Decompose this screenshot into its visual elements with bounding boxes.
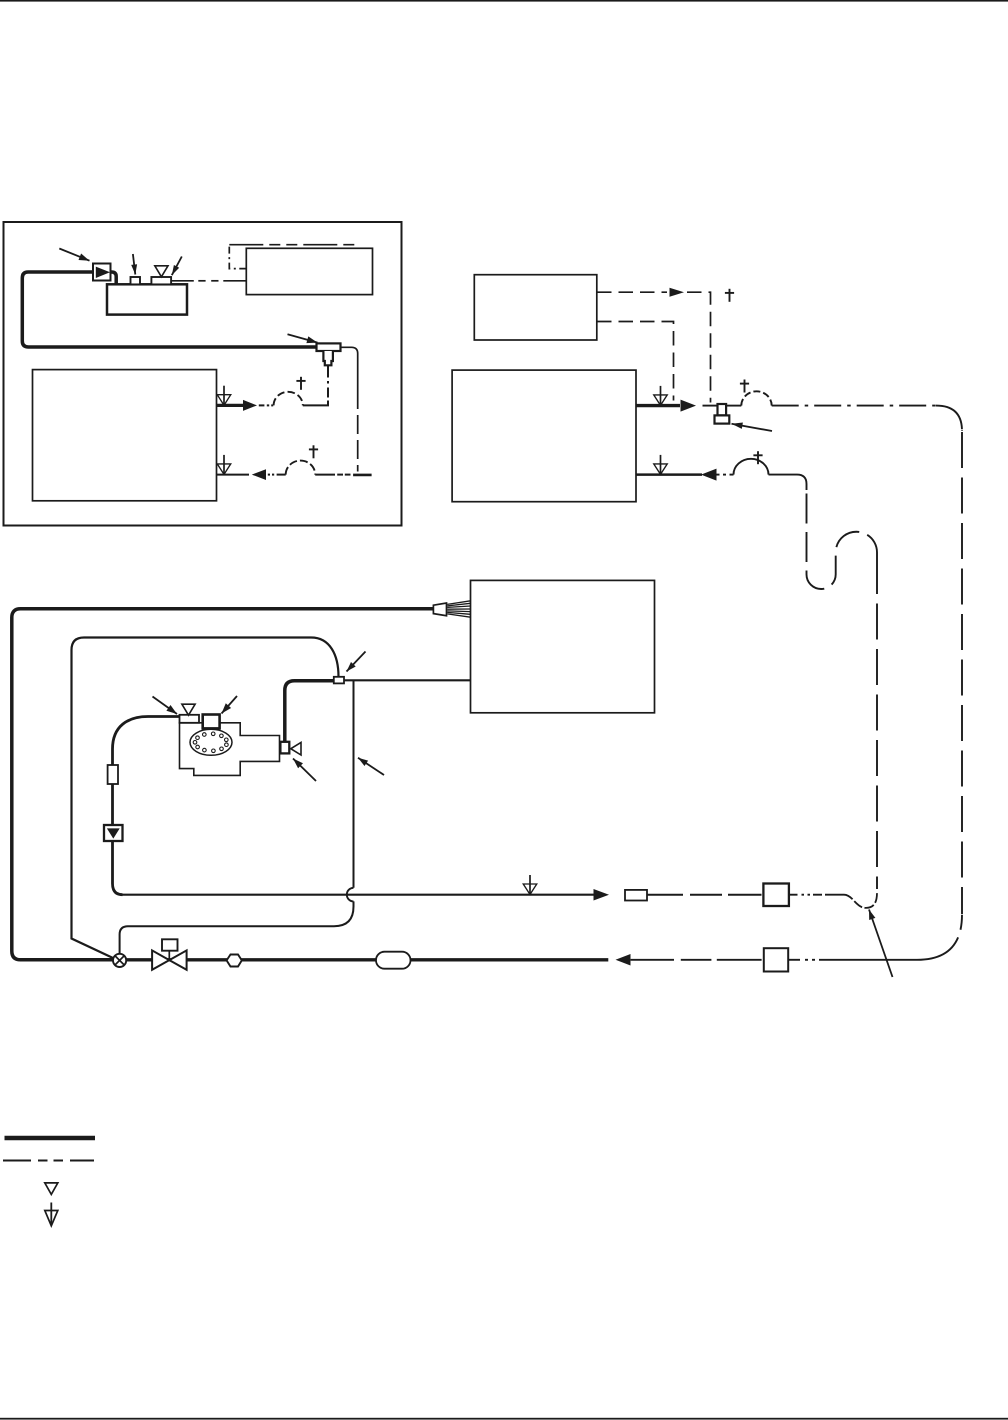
branch pipe wire down xyxy=(353,681,355,888)
dagger note mark xyxy=(300,377,302,390)
pump body xyxy=(180,723,280,776)
return corner curve wire xyxy=(917,915,962,960)
B2 supply port anchor symbol xyxy=(654,395,668,406)
feed union box xyxy=(763,884,789,907)
pump outlet fitting xyxy=(280,742,289,754)
inset actuator unit box xyxy=(33,370,217,501)
union hexagon xyxy=(227,955,242,967)
return flow arrow xyxy=(616,954,631,966)
return chain wire right xyxy=(788,959,800,961)
inset one-way valve square xyxy=(93,264,111,281)
leader arrow to one-way valve xyxy=(59,249,89,261)
return chain wire into s-bend xyxy=(769,475,807,490)
main thick pipe loop wire xyxy=(12,609,434,960)
feed line wire to right xyxy=(122,894,594,896)
inset thick suction pipe wire xyxy=(22,272,316,347)
return hop-over arc xyxy=(734,459,769,475)
inset harness chain wire above control unit xyxy=(229,245,246,269)
pump discharge pipe wire xyxy=(285,681,334,742)
banjo connector xyxy=(703,405,718,407)
return dashes wire xyxy=(681,959,712,961)
B1 dashed signal wire 2 xyxy=(597,322,674,401)
dagger note mark xyxy=(313,445,315,458)
feed port anchor symbol xyxy=(523,884,537,895)
check valve xyxy=(104,825,123,841)
legend thick line sample xyxy=(5,1136,96,1140)
leader arrow to branch pipe xyxy=(358,758,384,775)
pump inlet flange xyxy=(180,715,200,723)
ECU box xyxy=(471,580,655,712)
dagger note mark xyxy=(757,451,759,464)
inset sensor dashed lead wire xyxy=(171,280,194,282)
feed-to-drop junction curve wire xyxy=(844,893,877,908)
inset return flow arrow xyxy=(217,474,250,476)
feed hose fitting xyxy=(625,890,647,901)
leader arrow to pump inlet xyxy=(153,697,178,715)
pipe junction to ECU wire xyxy=(344,679,471,681)
branch pipe corner wire xyxy=(120,901,354,953)
feed chain wire to drop xyxy=(790,894,798,896)
inset return chain wire right xyxy=(315,474,335,476)
B1 dashed signal wire 1 drop xyxy=(687,292,711,402)
return chain wire xyxy=(717,474,720,476)
second loop wire xyxy=(72,638,339,959)
inline filter xyxy=(108,765,118,784)
inset tee right branch wire xyxy=(341,347,358,390)
signal arrow xyxy=(670,288,685,297)
inset tee stem chain wire xyxy=(327,365,329,377)
leader arrow to connector block xyxy=(222,696,238,714)
leader arrow to cap xyxy=(133,254,135,275)
bleed valve circle-x xyxy=(113,954,126,967)
inset supply corner wire xyxy=(303,404,329,406)
branch hop-over arc xyxy=(347,888,354,902)
B2 return flow arrow xyxy=(636,473,702,476)
pump outlet triangle xyxy=(291,742,301,755)
harness crimp nozzle xyxy=(433,603,446,616)
inset supply port anchor symbol xyxy=(217,395,231,406)
inset reservoir cap xyxy=(131,277,141,284)
pump flange ellipse xyxy=(190,729,232,755)
leader arrow to junction xyxy=(869,910,893,978)
legend anchor symbol xyxy=(45,1211,58,1226)
leader arrow to level sensor xyxy=(172,257,182,276)
inset fluid level symbol xyxy=(155,266,168,277)
B2 supply flow arrow xyxy=(636,404,680,407)
inset detail frame xyxy=(4,222,402,526)
right supply drop chain wire xyxy=(961,432,963,914)
legend fluid level symbol xyxy=(45,1183,58,1195)
return union box xyxy=(764,948,788,971)
pump vent symbol xyxy=(182,704,195,715)
hydraulic unit box B2 xyxy=(452,370,636,502)
return thin line wire xyxy=(631,959,674,961)
inset supply chain wire xyxy=(259,404,265,406)
dagger note mark xyxy=(744,380,746,393)
shut-off valve actuator xyxy=(168,944,170,960)
page top rule xyxy=(0,0,1008,2)
inset pipe stub to reservoir wire xyxy=(111,272,117,284)
feed flow arrow xyxy=(594,889,610,901)
pressure switch box B1 xyxy=(474,275,597,340)
inset control unit box xyxy=(246,248,372,294)
supply chain wire to right drop xyxy=(772,405,936,407)
inset tee fitting xyxy=(317,343,341,351)
supply hop-over arc xyxy=(741,391,771,405)
damper capsule xyxy=(376,952,411,969)
leader arrow to banjo connector xyxy=(732,424,773,431)
inset level sensor block xyxy=(151,277,171,284)
bottom return thick pipe wire xyxy=(126,958,609,961)
right return drop chain wire xyxy=(876,558,878,889)
inset supply flow arrow xyxy=(217,404,244,407)
junction fitting xyxy=(334,677,344,684)
leader arrow to junction fitting xyxy=(347,652,366,672)
legend chain line sample xyxy=(3,1160,94,1162)
inset supply hop-over arc xyxy=(274,392,303,406)
shut-off valve body xyxy=(152,950,169,969)
inset return port anchor symbol xyxy=(217,464,231,475)
B1 dashed signal wire 1 xyxy=(597,291,667,293)
leader arrow to outlet xyxy=(293,759,316,782)
page bottom rule xyxy=(0,1418,1008,1420)
pump suction pipe wire xyxy=(113,717,180,895)
harness fan wires xyxy=(447,601,470,605)
inset return hop-over arc xyxy=(286,461,316,475)
leader arrow to tee fitting xyxy=(288,334,318,342)
pump top connector block xyxy=(203,715,220,729)
inset reservoir tank xyxy=(107,284,187,314)
dagger note mark xyxy=(729,289,731,302)
B2 return port anchor symbol xyxy=(654,464,668,475)
inset lower line end bar xyxy=(353,474,372,477)
inset return chain wire xyxy=(268,474,270,476)
feed line dashes wire xyxy=(647,894,683,896)
inset right chain drop wire xyxy=(357,390,359,472)
